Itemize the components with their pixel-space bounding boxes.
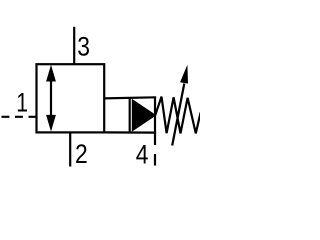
svg-text:2: 2 <box>75 139 88 169</box>
bottom channel wire to pilot stage <box>104 131 157 133</box>
poppet triangle <box>132 99 157 132</box>
pilot poppet seat stem <box>154 97 156 134</box>
svg-text:1: 1 <box>16 88 28 118</box>
port 2 wire <box>69 132 71 166</box>
svg-text:4: 4 <box>136 139 149 169</box>
port 4 pilot dashed wire <box>154 134 156 166</box>
port 1 pilot dashed wire <box>2 116 37 118</box>
pilot stage partition line <box>129 97 131 133</box>
double arrow head down <box>46 115 56 132</box>
valve body (normally-closed spool box) <box>37 64 105 132</box>
top channel wire to pilot stage <box>104 97 157 98</box>
spring <box>155 97 200 134</box>
svg-text:3: 3 <box>77 31 90 61</box>
double arrow head up <box>46 65 56 82</box>
port 3 wire <box>73 27 75 64</box>
adjustment arrow shaft <box>172 84 184 146</box>
variable-flow double arrow shaft <box>50 78 52 118</box>
adjustment arrow head <box>180 65 188 84</box>
